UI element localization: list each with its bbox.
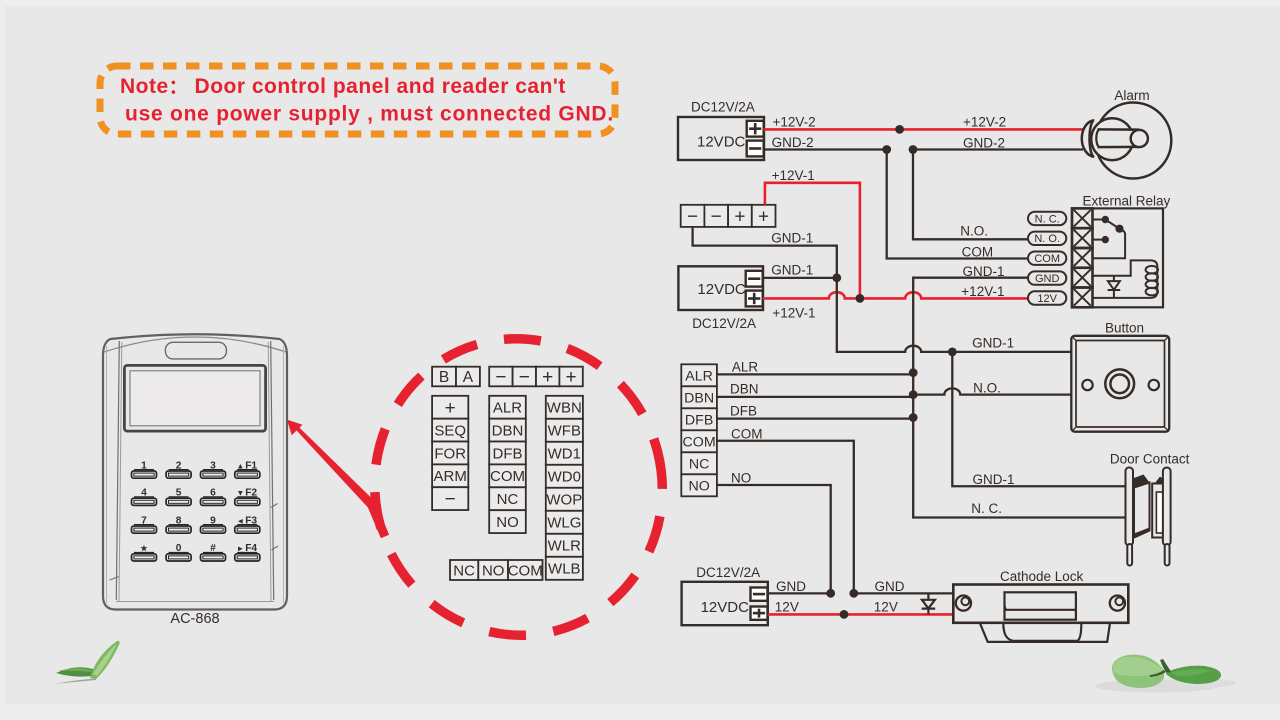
terminal block B A <box>432 367 480 387</box>
svg-text:+12V-1: +12V-1 <box>961 284 1004 299</box>
wire GND-1 from PSU2 <box>763 277 837 279</box>
relay pills N.C. N.O. COM GND 12V <box>1028 212 1066 305</box>
svg-text:−: − <box>687 207 698 228</box>
svg-text:+12V-2: +12V-2 <box>963 115 1006 130</box>
svg-text:GND: GND <box>875 579 905 594</box>
exit button round button <box>1082 369 1159 398</box>
wire DBN <box>717 396 913 398</box>
wire GND net: relay GND pill to door contact N.C. <box>913 278 1125 518</box>
svg-text:DBN: DBN <box>492 423 524 440</box>
terminal block reader power/SEQ/FOR/ARM <box>432 396 468 510</box>
svg-text:NO: NO <box>688 479 709 495</box>
svg-text:N.O.: N.O. <box>960 223 988 238</box>
svg-text:GND-2: GND-2 <box>772 135 814 150</box>
wire GND bottom to lock <box>854 592 953 594</box>
svg-text:+: + <box>734 207 745 228</box>
svg-text:−: − <box>495 367 506 388</box>
svg-text:+12V-1: +12V-1 <box>772 168 815 183</box>
svg-text:ALR: ALR <box>685 369 713 385</box>
keypad button 2 <box>166 460 191 478</box>
keypad button hash <box>201 543 226 561</box>
relay switch contacts <box>1093 220 1126 259</box>
svg-text:COM: COM <box>508 562 543 579</box>
svg-text:FOR: FOR <box>434 445 466 462</box>
wire junction dots <box>826 125 956 619</box>
wire 12V bottom (red) to lock <box>768 613 953 616</box>
svg-text:+12V-2: +12V-2 <box>773 115 816 130</box>
flyback diode at cathode lock <box>922 593 936 614</box>
terminal block NC NO COM (bottom) <box>450 560 543 580</box>
wire GND bottom left segment <box>768 592 831 594</box>
keypad button 6 <box>201 488 226 506</box>
svg-text:DFB: DFB <box>493 445 523 462</box>
keypad button 8 <box>166 515 191 533</box>
wire GND-1 to button <box>837 278 1072 352</box>
svg-text:N.O.: N.O. <box>973 381 1001 396</box>
power supply PSU3 bottom (12VDC box) <box>682 565 768 625</box>
svg-text:COM: COM <box>962 245 994 260</box>
svg-text:+: + <box>566 367 577 388</box>
keypad button 0 <box>166 543 191 561</box>
svg-text:Door Contact: Door Contact <box>1110 452 1190 467</box>
terminal block minus minus plus plus <box>489 367 583 388</box>
svg-text:DC12V/2A: DC12V/2A <box>692 316 756 331</box>
wire DFB <box>717 417 913 419</box>
svg-text:DFB: DFB <box>730 404 757 419</box>
svg-text:ARM: ARM <box>434 468 467 485</box>
svg-text:Note： Door control panel and: Note： Door control panel and reader can'… <box>120 75 566 98</box>
terminal block ALR..NO (circle) <box>489 396 526 533</box>
svg-text:COM: COM <box>1034 253 1060 265</box>
wire GND-1 to door contact <box>952 352 1125 486</box>
leaf decoration bottom-left <box>54 641 120 684</box>
note text <box>120 75 614 126</box>
wire ALR <box>717 373 913 375</box>
relay diode <box>1108 276 1121 298</box>
svg-text:use one power supply , must co: use one power supply , must connected GN… <box>125 103 614 126</box>
keypad button 3 <box>201 460 226 478</box>
svg-text:NO: NO <box>731 471 751 486</box>
svg-text:ALR: ALR <box>732 360 759 375</box>
svg-text:ALR: ALR <box>493 400 522 417</box>
wire N.O. to button <box>913 388 1071 394</box>
exit button plate <box>1071 336 1169 432</box>
svg-text:SEQ: SEQ <box>434 423 466 440</box>
svg-text:WLR: WLR <box>548 538 582 555</box>
svg-text:12V: 12V <box>874 600 898 615</box>
keypad AC-868 body <box>103 334 287 609</box>
svg-text:WFB: WFB <box>548 423 581 440</box>
external relay terminal strip (5 screw cells) <box>1072 208 1093 307</box>
svg-text:DBN: DBN <box>684 391 714 407</box>
svg-text:WD0: WD0 <box>548 469 581 486</box>
dashed red circle highlight <box>343 308 693 666</box>
keypad button 4 <box>132 488 157 506</box>
svg-text:−: − <box>711 207 722 228</box>
svg-text:GND-1: GND-1 <box>972 336 1014 351</box>
svg-text:N. O.: N. O. <box>1034 233 1060 245</box>
svg-text:NO: NO <box>496 514 519 531</box>
keypad button F4 <box>235 543 260 561</box>
svg-text:+: + <box>542 367 553 388</box>
wire GND-2 right segment <box>913 148 1083 150</box>
svg-text:GND: GND <box>1035 273 1060 285</box>
svg-text:COM: COM <box>731 427 763 442</box>
svg-text:−: − <box>519 367 530 388</box>
cathode lock screws <box>956 596 1125 611</box>
svg-text:Alarm: Alarm <box>1114 88 1149 103</box>
keypad button 1 <box>132 460 157 478</box>
keypad button 7 <box>132 515 157 533</box>
wire GND-2 left segment <box>764 148 887 150</box>
door contact magnet <box>1152 468 1171 566</box>
svg-text:DC12V/2A: DC12V/2A <box>691 100 755 115</box>
relay contact dots <box>1102 216 1124 244</box>
svg-text:NC: NC <box>689 457 710 473</box>
svg-text:WD1: WD1 <box>548 446 581 463</box>
svg-text:COM: COM <box>683 435 716 451</box>
svg-text:GND-1: GND-1 <box>771 263 813 278</box>
cathode lock (electric strike) <box>953 585 1128 642</box>
svg-text:WOP: WOP <box>546 492 582 509</box>
svg-text:WLB: WLB <box>548 561 581 578</box>
svg-text:GND-1: GND-1 <box>771 230 813 245</box>
svg-text:External Relay: External Relay <box>1083 194 1171 209</box>
wire GND-2 to relay N.O. pill <box>913 150 1028 240</box>
keypad speaker window <box>165 342 226 359</box>
wire +12V-1 (red, from reader + to junction) <box>765 183 860 299</box>
svg-text:+12V-1: +12V-1 <box>772 306 815 321</box>
wire +12V-1 (red, PSU2 to relay 12V pill) <box>763 292 1028 298</box>
terminal block minus minus plus plus (reader power) <box>681 205 776 228</box>
svg-text:NO: NO <box>482 562 505 579</box>
svg-text:DC12V/2A: DC12V/2A <box>696 565 760 580</box>
red arrow pointing to keypad <box>287 420 385 537</box>
svg-text:Cathode Lock: Cathode Lock <box>1000 569 1084 584</box>
svg-text:B: B <box>439 369 449 386</box>
keypad button star <box>132 544 157 561</box>
svg-text:+: + <box>758 207 769 228</box>
wire NO to bottom GND <box>717 485 831 593</box>
svg-text:GND-1: GND-1 <box>963 264 1005 279</box>
keypad button F1 <box>235 460 260 478</box>
external relay box <box>1072 208 1163 307</box>
svg-text:12VDC: 12VDC <box>701 599 750 616</box>
wire +12V-2 (red) <box>764 128 1084 131</box>
power supply PSU1 top (12VDC box) <box>678 100 764 161</box>
svg-text:N. C.: N. C. <box>971 501 1002 516</box>
svg-text:GND: GND <box>776 579 806 594</box>
note box (dashed orange border) <box>100 66 615 134</box>
svg-text:12VDC: 12VDC <box>697 281 746 298</box>
svg-text:12V: 12V <box>775 600 799 615</box>
svg-text:12V: 12V <box>1037 293 1057 305</box>
keypad button 5 <box>166 488 191 506</box>
relay coil (4 loops) <box>1146 266 1158 296</box>
svg-text:WLG: WLG <box>547 515 581 532</box>
power supply PSU2 middle (12VDC box) <box>678 266 763 331</box>
wire GND-2 to relay COM pill <box>887 150 1028 259</box>
svg-text:WBN: WBN <box>547 400 582 417</box>
door contact sensor <box>1126 468 1150 566</box>
wire COM to bottom GND <box>717 441 854 594</box>
svg-text:A: A <box>463 369 474 386</box>
terminal block wiegand WBN..WLB <box>546 396 583 580</box>
svg-text:−: − <box>445 489 456 510</box>
svg-text:AC-868: AC-868 <box>170 611 219 627</box>
svg-text:DFB: DFB <box>685 413 713 429</box>
leaf decoration bottom-right <box>1095 655 1236 693</box>
alarm siren symbol <box>1082 103 1172 179</box>
keypad display <box>124 365 265 431</box>
svg-text:NC: NC <box>453 562 475 579</box>
relay coil wiring <box>1093 260 1158 298</box>
svg-text:+: + <box>445 398 456 419</box>
wire GND-1 from reader minus <box>693 227 837 278</box>
svg-text:DBN: DBN <box>730 382 759 397</box>
keypad button F3 <box>235 515 260 533</box>
svg-text:Button: Button <box>1105 321 1144 336</box>
svg-text:12VDC: 12VDC <box>697 134 746 151</box>
keypad button 9 <box>201 515 226 533</box>
terminal block ALR DBN DFB COM NC NO (panel) <box>681 364 717 496</box>
svg-text:GND-2: GND-2 <box>963 136 1005 151</box>
svg-text:NC: NC <box>497 491 519 508</box>
svg-text:COM: COM <box>490 468 525 485</box>
keypad button F2 <box>235 488 260 506</box>
svg-text:GND-1: GND-1 <box>973 472 1015 487</box>
svg-text:N. C.: N. C. <box>1035 213 1060 225</box>
